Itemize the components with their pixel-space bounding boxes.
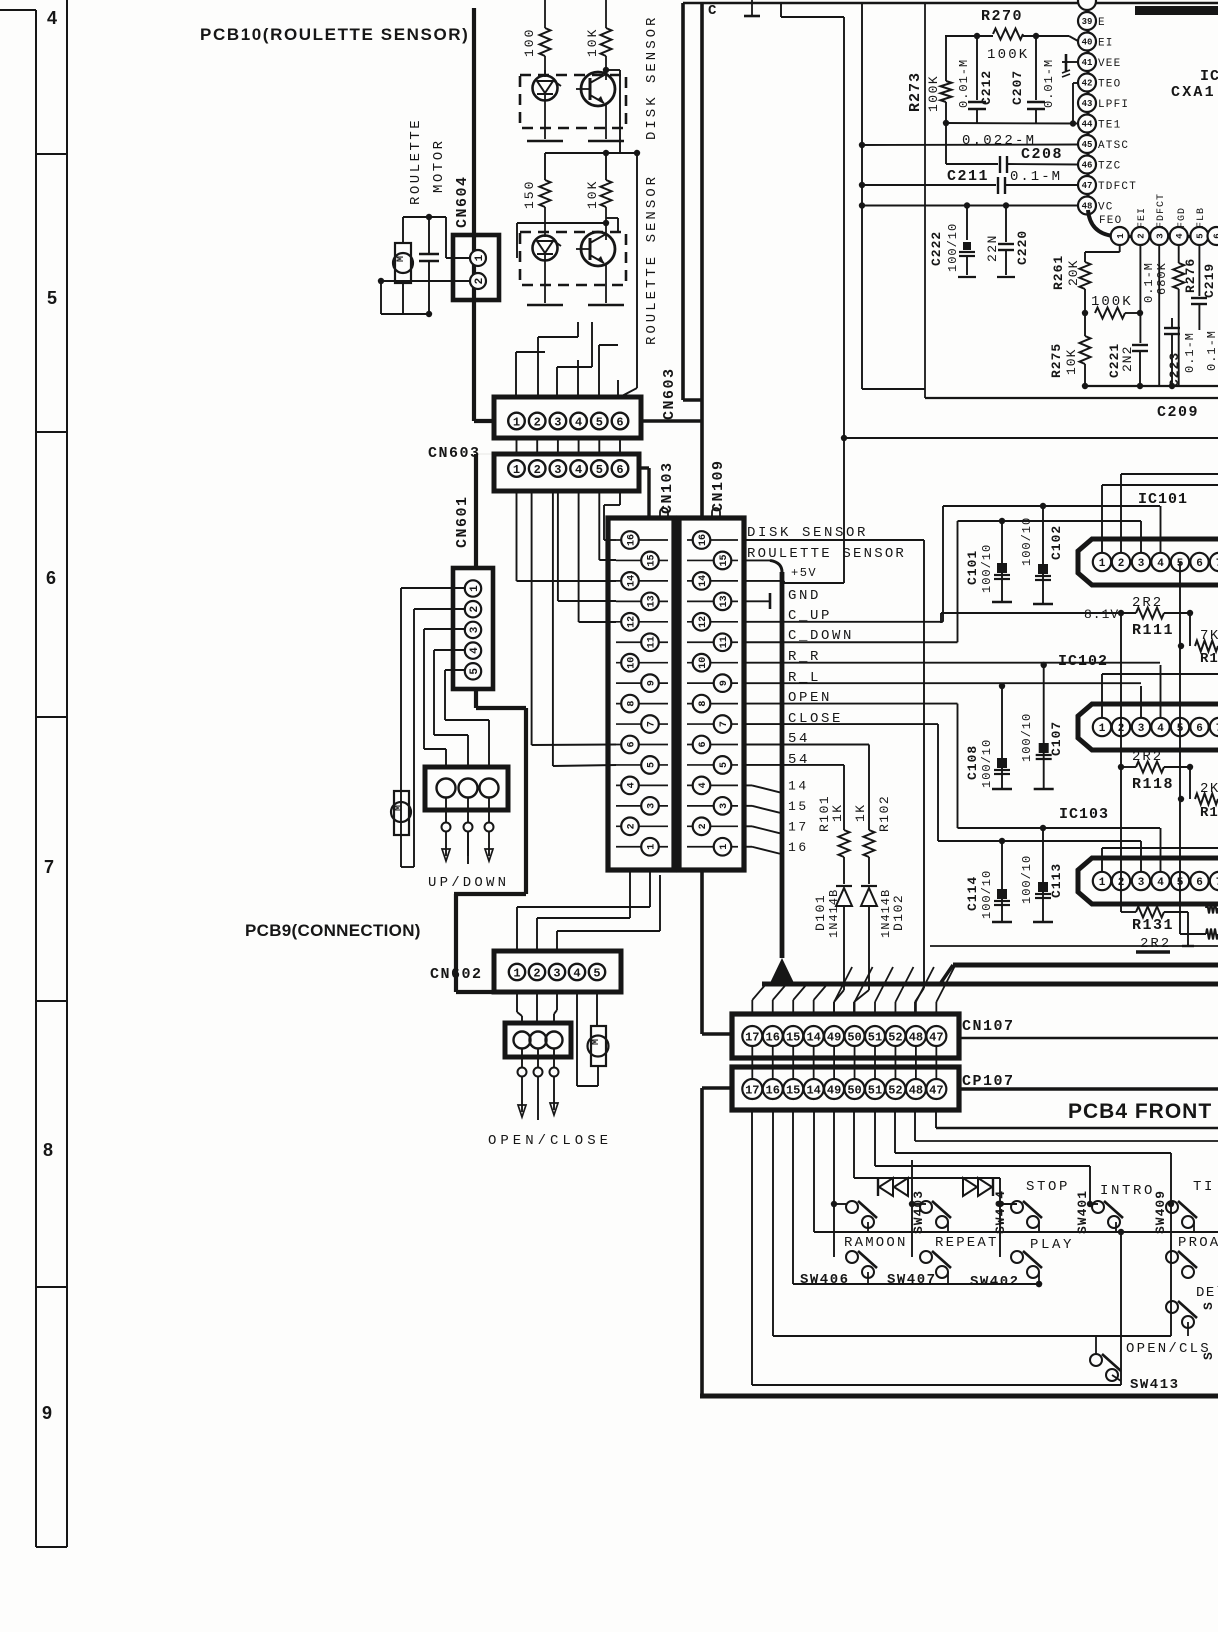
IC CXA1 bottom pins — [1111, 193, 1218, 245]
svg-text:4: 4 — [627, 782, 638, 788]
svg-text:22N: 22N — [985, 234, 1000, 262]
net ROULETTE SENSOR — [744, 560, 782, 572]
svg-text:CN109: CN109 — [710, 459, 727, 512]
svg-text:3: 3 — [1155, 233, 1165, 238]
resistor 150 — [522, 180, 551, 236]
connector OPEN/CLOSE plug — [505, 1023, 571, 1120]
svg-text:3: 3 — [719, 803, 730, 809]
wire pin52 — [895, 1110, 1171, 1336]
wire pin17 row4 common — [752, 1110, 1121, 1385]
svg-text:51: 51 — [868, 1083, 882, 1097]
wire bus row — [930, 945, 1218, 947]
resistor 2K — [1178, 767, 1218, 821]
svg-text:SW413: SW413 — [1130, 1377, 1180, 1393]
svg-text:TE1: TE1 — [1098, 120, 1121, 132]
svg-text:CN601: CN601 — [454, 495, 471, 548]
svg-text:15: 15 — [788, 799, 809, 814]
label ROULETTE SENSOR — [747, 546, 906, 562]
svg-text:14: 14 — [788, 778, 809, 793]
svg-text:4: 4 — [47, 8, 57, 28]
wire CP107 right — [959, 1087, 1218, 1091]
svg-text:M: M — [591, 1039, 602, 1045]
svg-text:TI: TI — [1193, 1179, 1215, 1195]
capacitor C207 0.01-M — [1010, 36, 1056, 123]
svg-text:52: 52 — [888, 1030, 902, 1044]
svg-text:17: 17 — [788, 819, 809, 834]
net C_DOWN — [744, 521, 958, 644]
wire TE1 row — [943, 83, 1078, 149]
label R270 — [981, 8, 1023, 25]
wire CN601-4 — [434, 650, 468, 767]
svg-text:SW402: SW402 — [970, 1274, 1020, 1290]
svg-text:PCB9(CONNECTION): PCB9(CONNECTION) — [245, 921, 421, 940]
resistor stub right edge — [1136, 950, 1170, 953]
svg-text:C222: C222 — [929, 231, 944, 266]
connector CN103 — [608, 518, 674, 870]
svg-text:100/10: 100/10 — [1020, 855, 1034, 904]
capacitor 0.1-M (FEI) — [1142, 262, 1156, 303]
wire pin48 — [915, 1110, 1218, 1141]
svg-text:R111: R111 — [1132, 622, 1174, 639]
svg-text:DISK SENSOR: DISK SENSOR — [644, 15, 660, 140]
svg-text:TDFCT: TDFCT — [1098, 181, 1137, 193]
ground stub top — [744, 0, 760, 16]
diode D101 1N414B — [813, 886, 852, 1014]
PCB10 left border — [474, 8, 494, 421]
svg-text:0.01-M: 0.01-M — [957, 59, 971, 108]
wire OPEN to IC103 — [958, 828, 1161, 872]
phototransistor Q (roulette sensor) — [576, 223, 615, 278]
svg-text:11: 11 — [647, 636, 658, 648]
svg-text:R276: R276 — [1183, 258, 1198, 293]
svg-text:OPEN/CLOSE: OPEN/CLOSE — [488, 1133, 612, 1149]
svg-text:VEE: VEE — [1098, 58, 1121, 70]
wire +5V drop — [841, 17, 847, 583]
net CLOSE — [744, 711, 938, 841]
wire IC101 pin1 top — [1102, 485, 1218, 552]
svg-text:5: 5 — [469, 668, 481, 675]
svg-text:+5V: +5V — [791, 566, 817, 580]
svg-text:4: 4 — [575, 463, 582, 477]
svg-text:C114: C114 — [965, 876, 980, 911]
svg-text:S: S — [1201, 1302, 1216, 1310]
junction triangle +5V to bus — [770, 958, 794, 983]
capacitor C220 22N — [985, 205, 1030, 277]
svg-text:6: 6 — [1196, 723, 1203, 735]
svg-text:3: 3 — [553, 966, 560, 980]
svg-text:3: 3 — [554, 415, 561, 429]
svg-text:4: 4 — [573, 966, 580, 980]
svg-text:16: 16 — [766, 1030, 780, 1044]
capacitor C211 0.1-M — [862, 168, 1078, 194]
svg-text:VC: VC — [1098, 202, 1114, 214]
svg-text:CN603: CN603 — [661, 367, 678, 420]
svg-text:6: 6 — [1196, 877, 1203, 889]
wire C_UP row — [943, 506, 1161, 552]
svg-text:54: 54 — [788, 731, 810, 747]
svg-text:M: M — [394, 805, 405, 811]
net OPEN — [744, 690, 958, 828]
svg-text:OPEN/CLS: OPEN/CLS — [1126, 1341, 1211, 1357]
svg-text:100K: 100K — [1091, 294, 1133, 310]
svg-text:100/10: 100/10 — [1020, 713, 1034, 762]
switch SW409 INTRO — [1092, 1183, 1168, 1234]
label DISK SENSOR — [747, 525, 868, 541]
svg-text:11: 11 — [719, 636, 730, 648]
wire R_R to IC102 — [1160, 665, 1162, 717]
vertical label CN109 — [710, 459, 727, 512]
main board bottom border — [700, 1394, 1218, 1399]
svg-text:0.1-M: 0.1-M — [1010, 169, 1062, 185]
IC IC102 — [1078, 704, 1218, 750]
svg-text:42: 42 — [1082, 79, 1093, 89]
icon prev track — [878, 1178, 908, 1196]
svg-text:1: 1 — [513, 463, 520, 477]
svg-text:150: 150 — [522, 180, 537, 209]
svg-text:5: 5 — [719, 762, 730, 768]
svg-text:2: 2 — [534, 463, 541, 477]
svg-text:5: 5 — [596, 415, 603, 429]
svg-text:5: 5 — [647, 762, 658, 768]
svg-text:40: 40 — [1082, 38, 1093, 48]
net 54 b — [744, 752, 844, 830]
grid row label 7 — [44, 857, 54, 877]
resistor R261 20K — [1051, 245, 1120, 313]
diode D102 1N414B — [854, 886, 906, 1014]
svg-text:10: 10 — [698, 657, 709, 669]
switch DELETE — [1166, 1285, 1218, 1360]
svg-text:12: 12 — [627, 616, 638, 628]
svg-text:FLB: FLB — [1196, 207, 1207, 228]
svg-text:ROULETTE SENSOR: ROULETTE SENSOR — [747, 546, 906, 562]
switch SW407 REPEAT — [887, 1235, 999, 1288]
svg-text:100/10: 100/10 — [980, 544, 994, 593]
label CN107 — [962, 1018, 1015, 1035]
capacitor C221 2N2 — [1107, 245, 1148, 386]
wire hops over box tops — [660, 508, 720, 518]
svg-text:3: 3 — [469, 626, 481, 633]
label CP107 — [962, 1073, 1015, 1090]
svg-text:C113: C113 — [1049, 863, 1064, 898]
capacitor C107 — [1020, 662, 1064, 789]
label FEO — [1099, 215, 1122, 227]
node disk collector — [603, 67, 620, 153]
wire VC row — [862, 202, 1078, 208]
connector CN601 — [453, 568, 493, 689]
svg-text:15: 15 — [647, 554, 658, 566]
svg-text:2: 2 — [698, 823, 709, 829]
svg-text:SW407: SW407 — [887, 1272, 937, 1288]
net R_L — [744, 670, 1141, 686]
dashed photo-interrupter box 1 — [520, 75, 626, 128]
bus IC pin2 — [1120, 613, 1122, 912]
net GND — [744, 588, 821, 609]
svg-text:2: 2 — [627, 823, 638, 829]
svg-text:51: 51 — [868, 1030, 882, 1044]
label CN603 (main side) — [428, 445, 481, 462]
net 54 a — [744, 731, 869, 830]
resistor R101 1K — [817, 795, 850, 884]
svg-text:REPEAT: REPEAT — [935, 1235, 999, 1251]
svg-text:0.1-M: 0.1-M — [1205, 330, 1218, 371]
svg-text:39: 39 — [1082, 17, 1093, 27]
connector CN602 — [494, 951, 621, 992]
svg-text:3: 3 — [647, 803, 658, 809]
vertical label CN604 — [454, 175, 471, 228]
svg-text:FEI: FEI — [1137, 207, 1148, 228]
svg-text:4: 4 — [575, 415, 582, 429]
svg-text:10K: 10K — [585, 28, 600, 57]
svg-text:12: 12 — [698, 616, 709, 628]
svg-text:R1: R1 — [1200, 651, 1218, 667]
svg-text:LPFI: LPFI — [1098, 99, 1129, 111]
svg-text:6: 6 — [46, 568, 56, 588]
svg-text:IC102: IC102 — [1058, 653, 1108, 670]
wires CN603 to CN103 rows — [517, 491, 621, 622]
svg-text:DEl: DEl — [1196, 1285, 1218, 1301]
wire pin47 — [936, 1110, 1218, 1128]
svg-text:49: 49 — [827, 1030, 841, 1044]
wire pin50 — [854, 1110, 1000, 1257]
svg-text:2: 2 — [1137, 233, 1147, 238]
svg-text:R1: R1 — [1200, 805, 1218, 821]
svg-text:50: 50 — [847, 1030, 861, 1044]
wire CLOSE to IC103 — [938, 841, 1141, 872]
svg-text:7: 7 — [647, 721, 658, 727]
label IC101 — [1138, 491, 1188, 508]
svg-text:ROULETTE SENSOR: ROULETTE SENSOR — [644, 174, 660, 345]
svg-text:PCB4 FRONT: PCB4 FRONT — [1068, 1100, 1212, 1123]
svg-text:R261: R261 — [1051, 255, 1066, 290]
svg-text:100/10: 100/10 — [980, 870, 994, 919]
svg-text:1: 1 — [719, 844, 730, 850]
svg-text:1: 1 — [469, 585, 481, 592]
resistor 10K (disk) — [585, 0, 612, 70]
resistor R270 — [945, 29, 1078, 64]
wire CN107 right — [959, 1037, 1218, 1039]
main board top border — [683, 2, 1218, 5]
svg-text:48: 48 — [909, 1030, 923, 1044]
open terminal (Q2) — [588, 278, 624, 305]
resistor 100K row — [1082, 294, 1143, 319]
capacitor C219 — [1191, 245, 1218, 371]
IC body top bar — [1135, 6, 1218, 15]
servo block border — [925, 4, 1218, 398]
wires sensors to CN603 — [516, 322, 620, 397]
svg-text:9: 9 — [42, 1403, 52, 1423]
svg-text:8: 8 — [698, 701, 709, 707]
svg-text:SW406: SW406 — [800, 1272, 850, 1288]
up/down motor M — [391, 791, 411, 835]
power bus upper — [940, 965, 1218, 984]
svg-text:1: 1 — [1099, 558, 1106, 570]
svg-text:52: 52 — [888, 1083, 902, 1097]
svg-text:D101: D101 — [813, 894, 828, 931]
wire CN601-1 motor loop — [401, 588, 465, 867]
svg-text:C220: C220 — [1015, 230, 1030, 265]
+5V bus (thick) — [780, 572, 785, 958]
svg-text:1N414B: 1N414B — [827, 889, 841, 938]
svg-text:7: 7 — [44, 857, 54, 877]
wire top rail — [781, 4, 844, 17]
net 15 — [744, 799, 809, 814]
svg-text:14: 14 — [806, 1083, 820, 1097]
svg-text:FEO: FEO — [1099, 215, 1122, 227]
svg-text:CN107: CN107 — [962, 1018, 1015, 1035]
svg-text:5: 5 — [596, 463, 603, 477]
IC CXA1 body left edge — [1086, 0, 1089, 211]
svg-text:PLAY: PLAY — [1030, 1237, 1074, 1253]
main board left border — [702, 3, 732, 1396]
svg-text:2N2: 2N2 — [1120, 346, 1135, 372]
wire SW404 feed — [909, 1160, 926, 1257]
resistor 7K — [1178, 613, 1218, 667]
loader motor M — [588, 1026, 609, 1066]
svg-text:6: 6 — [1196, 558, 1203, 570]
label PCB4 FRONT — [1068, 1100, 1212, 1123]
grid row label 4 — [47, 8, 57, 28]
svg-text:2: 2 — [1118, 558, 1125, 570]
resistor R102 1K — [853, 795, 892, 884]
svg-text:C212: C212 — [979, 70, 994, 105]
net R_R — [744, 649, 1160, 665]
svg-text:CN103: CN103 — [659, 461, 676, 514]
capacitor C108 — [965, 683, 1012, 789]
wire CN603 to border — [641, 419, 702, 422]
connector CN107 — [732, 1014, 959, 1058]
svg-text:16: 16 — [788, 840, 809, 855]
label IC CXA1 — [1171, 68, 1218, 101]
svg-text:9: 9 — [719, 680, 730, 686]
node roulette collector — [603, 218, 618, 397]
svg-text:48: 48 — [909, 1083, 923, 1097]
wire sensor output drop — [620, 153, 637, 397]
capacitor C212 0.01-M — [957, 36, 994, 123]
connector CN603 (main side) — [494, 454, 639, 491]
svg-text:UP/DOWN: UP/DOWN — [428, 875, 509, 891]
svg-text:CN604: CN604 — [454, 175, 471, 228]
resistor R131 2R2 — [1121, 907, 1194, 953]
svg-text:C102: C102 — [1049, 525, 1064, 560]
IC IC103 — [1078, 858, 1218, 904]
PCB9 border — [454, 454, 526, 992]
svg-text:7: 7 — [719, 721, 730, 727]
switch SW401 STOP — [1011, 1179, 1090, 1234]
wire motor loop — [378, 214, 470, 317]
svg-text:15: 15 — [719, 554, 730, 566]
wire ATSC row — [862, 144, 1078, 147]
svg-text:STOP: STOP — [1026, 1179, 1070, 1195]
svg-text:54: 54 — [788, 752, 810, 768]
svg-text:IC103: IC103 — [1059, 806, 1109, 823]
svg-text:20K: 20K — [1066, 260, 1081, 286]
LED D (roulette sensor) — [533, 236, 562, 261]
net 16 — [744, 840, 809, 855]
svg-text:SW401: SW401 — [1075, 1190, 1090, 1234]
svg-text:680K: 680K — [1155, 262, 1169, 295]
svg-text:100: 100 — [522, 28, 537, 57]
icon next track — [963, 1178, 993, 1196]
svg-text:MOTOR: MOTOR — [431, 138, 447, 193]
bottom rail — [1082, 383, 1218, 389]
roulette motor M — [393, 243, 413, 283]
svg-text:PCB10(ROULETTE SENSOR): PCB10(ROULETTE SENSOR) — [200, 25, 469, 44]
svg-text:0.01-M: 0.01-M — [1042, 59, 1056, 108]
svg-text:5: 5 — [47, 288, 57, 308]
svg-text:6: 6 — [698, 741, 709, 747]
capacitor C223 — [1159, 245, 1197, 387]
svg-text:41: 41 — [1082, 58, 1093, 68]
svg-text:OPEN: OPEN — [788, 690, 832, 706]
grid row label 6 — [46, 568, 56, 588]
PCB10 right border — [683, 3, 702, 400]
dashed photo-interrupter box 2 — [520, 232, 626, 285]
svg-text:14: 14 — [806, 1030, 820, 1044]
svg-text:6: 6 — [616, 463, 623, 477]
bus IC pin5 — [1179, 562, 1181, 934]
svg-text:2R2: 2R2 — [1132, 595, 1163, 611]
wire CN601-2 motor loop — [401, 609, 465, 867]
svg-text:SW409: SW409 — [1153, 1190, 1168, 1234]
label OPEN/CLOSE — [488, 1133, 612, 1149]
vertical label CN103 — [659, 461, 676, 514]
svg-text:100/10: 100/10 — [980, 739, 994, 788]
svg-text:49: 49 — [827, 1083, 841, 1097]
svg-text:13: 13 — [647, 595, 658, 607]
svg-text:16: 16 — [698, 534, 709, 546]
svg-text:1: 1 — [1116, 233, 1126, 239]
sheet border ruler strip — [0, 0, 67, 1547]
label 8.1V — [1084, 607, 1119, 622]
svg-text:5: 5 — [1196, 233, 1206, 238]
wire R_L to IC102 — [1140, 686, 1142, 717]
svg-text:CN602: CN602 — [430, 966, 483, 983]
svg-text:R_L: R_L — [788, 670, 821, 686]
svg-text:E: E — [1098, 17, 1106, 29]
svg-text:FGD: FGD — [1177, 207, 1188, 228]
svg-text:IC: IC — [1200, 68, 1218, 85]
net 14 — [744, 778, 809, 793]
svg-text:R102: R102 — [877, 795, 892, 832]
svg-text:15: 15 — [786, 1030, 800, 1044]
svg-text:EI: EI — [1098, 38, 1114, 50]
svg-text:3: 3 — [1138, 877, 1145, 889]
svg-text:2R2: 2R2 — [1140, 936, 1171, 952]
svg-text:FDFCT: FDFCT — [1156, 193, 1167, 228]
svg-text:2: 2 — [534, 415, 541, 429]
svg-text:14: 14 — [698, 575, 709, 587]
wire pin16 row3 common — [773, 1110, 1171, 1336]
svg-text:16: 16 — [627, 534, 638, 546]
net 17 — [744, 819, 809, 834]
capacitor C208 — [946, 123, 1078, 173]
svg-text:100/10: 100/10 — [1020, 517, 1034, 566]
svg-text:4: 4 — [698, 782, 709, 788]
PCB10 title — [200, 25, 469, 44]
open terminal (LED1) — [527, 100, 563, 141]
IC CXA1 pin column — [1078, 0, 1137, 215]
wire pin15 row2 common — [793, 1110, 1042, 1287]
svg-text:10K: 10K — [585, 180, 600, 209]
IC body corner — [1088, 210, 1218, 237]
wires CN107 to CP107 — [752, 1046, 936, 1079]
wire sensor junction row — [545, 150, 640, 180]
resistor R118 2R2 — [1118, 749, 1193, 793]
svg-text:C101: C101 — [965, 550, 980, 585]
svg-text:CLOSE: CLOSE — [788, 711, 843, 727]
svg-text:4: 4 — [1157, 558, 1164, 570]
vertical label CN601 — [454, 495, 471, 548]
